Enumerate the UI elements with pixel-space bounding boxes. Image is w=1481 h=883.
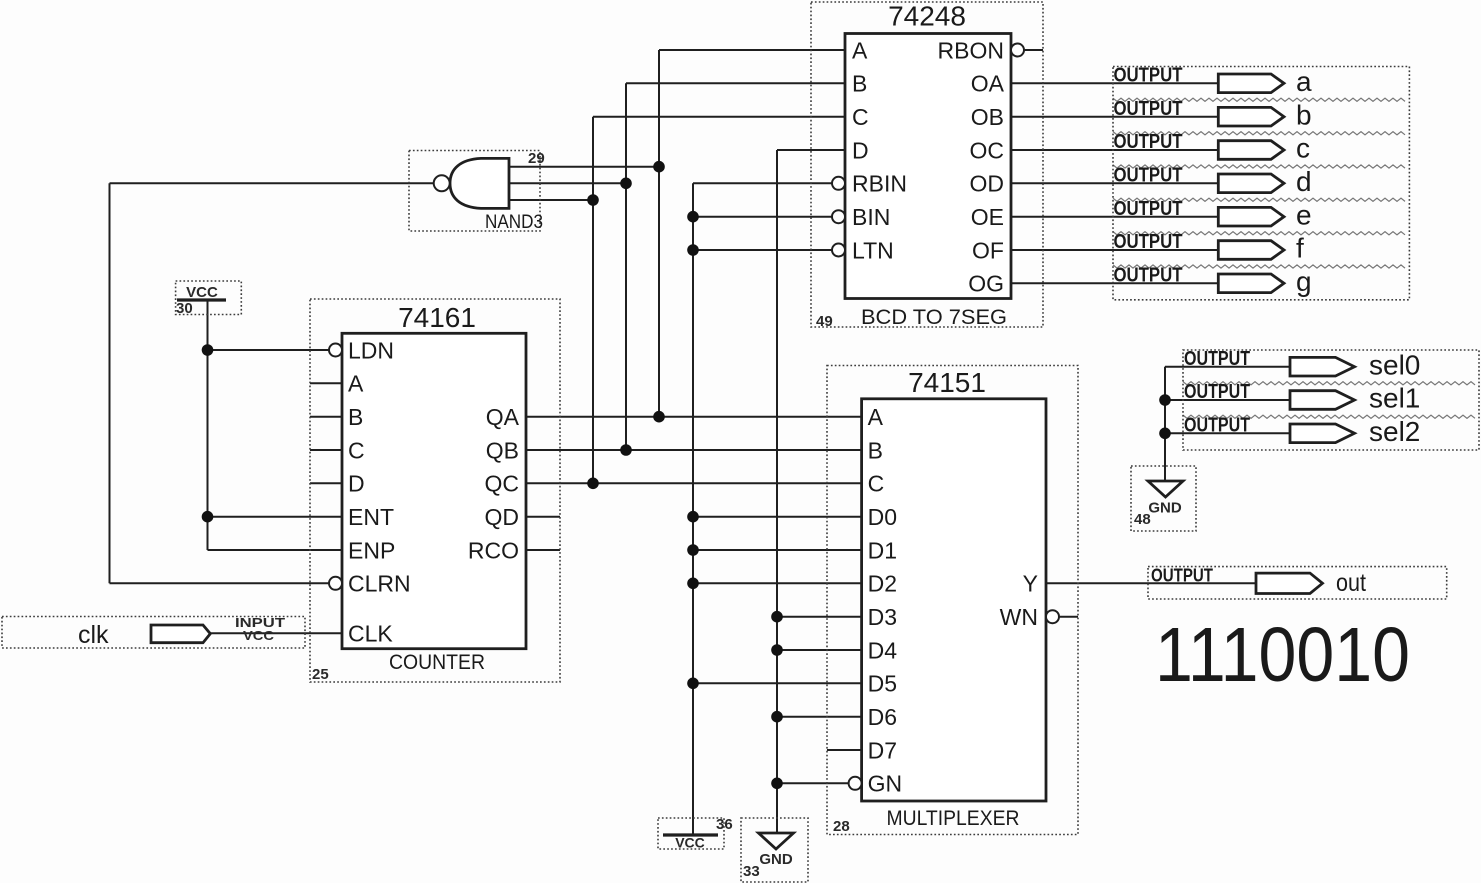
svg-text:MULTIPLEXER: MULTIPLEXER [887,807,1020,830]
svg-text:f: f [1296,233,1304,264]
svg-text:VCC: VCC [243,628,275,643]
svg-text:OUTPUT: OUTPUT [1114,265,1183,287]
svg-text:A: A [348,371,364,397]
svg-text:A: A [868,404,884,430]
svg-text:B: B [852,71,867,97]
svg-text:ENT: ENT [348,504,394,530]
svg-text:OF: OF [972,237,1004,263]
svg-text:OC: OC [970,137,1005,163]
svg-text:OUTPUT: OUTPUT [1114,165,1183,187]
svg-text:B: B [348,404,363,430]
svg-text:GND: GND [759,851,793,868]
svg-text:74248: 74248 [888,1,966,32]
svg-text:D0: D0 [868,504,897,530]
svg-text:b: b [1296,99,1312,130]
svg-text:D1: D1 [868,537,897,563]
svg-text:OE: OE [971,204,1004,230]
svg-text:d: d [1296,166,1312,197]
svg-text:B: B [868,437,883,463]
svg-text:OUTPUT: OUTPUT [1151,565,1213,585]
svg-text:LTN: LTN [852,237,894,263]
svg-text:D: D [852,137,869,163]
svg-text:g: g [1296,266,1312,297]
svg-text:1110010: 1110010 [1155,612,1410,698]
svg-text:QD: QD [485,504,520,530]
svg-text:D7: D7 [868,737,897,763]
svg-text:BCD TO 7SEG: BCD TO 7SEG [861,306,1007,329]
svg-text:OUTPUT: OUTPUT [1184,348,1250,370]
svg-text:C: C [348,437,365,463]
svg-text:74161: 74161 [398,302,476,333]
svg-text:OUTPUT: OUTPUT [1184,415,1250,437]
svg-text:OUTPUT: OUTPUT [1114,198,1183,220]
svg-text:a: a [1296,66,1312,97]
svg-text:74151: 74151 [908,367,986,398]
svg-text:sel0: sel0 [1369,349,1420,380]
svg-text:D3: D3 [868,604,897,630]
svg-text:sel2: sel2 [1369,416,1420,447]
svg-text:ENP: ENP [348,537,395,563]
svg-text:Y: Y [1023,571,1038,597]
svg-text:D5: D5 [868,671,897,697]
svg-text:out: out [1336,569,1366,597]
svg-text:OUTPUT: OUTPUT [1114,65,1183,87]
svg-text:CLRN: CLRN [348,571,411,597]
svg-text:clk: clk [78,621,109,649]
svg-text:GN: GN [868,771,903,797]
svg-text:QB: QB [486,437,519,463]
svg-text:33: 33 [743,863,760,880]
svg-text:BIN: BIN [852,204,890,230]
svg-text:sel1: sel1 [1369,383,1420,414]
svg-text:GND: GND [1148,500,1182,517]
svg-text:OUTPUT: OUTPUT [1114,131,1183,153]
svg-text:30: 30 [176,300,193,317]
svg-text:OUTPUT: OUTPUT [1184,381,1250,403]
svg-text:RBON: RBON [938,37,1004,63]
svg-text:25: 25 [312,666,329,683]
svg-text:A: A [852,37,868,63]
svg-text:OG: OG [968,271,1004,297]
svg-text:LDN: LDN [348,337,394,363]
svg-text:e: e [1296,199,1312,230]
svg-text:QA: QA [486,404,520,430]
svg-text:49: 49 [816,313,833,330]
svg-text:48: 48 [1134,511,1151,528]
svg-text:D: D [348,471,365,497]
svg-text:RCO: RCO [468,537,519,563]
svg-text:OUTPUT: OUTPUT [1114,231,1183,253]
svg-text:COUNTER: COUNTER [389,651,485,674]
svg-text:28: 28 [833,818,850,835]
svg-text:OA: OA [971,71,1005,97]
svg-text:D2: D2 [868,571,897,597]
svg-text:VCC: VCC [186,284,218,301]
svg-text:RBIN: RBIN [852,171,907,197]
svg-text:NAND3: NAND3 [485,212,543,233]
svg-text:D4: D4 [868,637,898,663]
svg-text:OB: OB [971,104,1004,130]
svg-text:VCC: VCC [675,835,705,851]
svg-text:CLK: CLK [348,621,393,647]
svg-text:36: 36 [716,816,733,833]
svg-text:OUTPUT: OUTPUT [1114,98,1183,120]
svg-text:QC: QC [485,471,520,497]
svg-text:c: c [1296,133,1310,164]
svg-text:OD: OD [970,171,1005,197]
svg-text:C: C [852,104,869,130]
svg-text:C: C [868,471,885,497]
svg-text:29: 29 [528,150,545,167]
svg-text:WN: WN [1000,604,1038,630]
svg-text:D6: D6 [868,704,897,730]
